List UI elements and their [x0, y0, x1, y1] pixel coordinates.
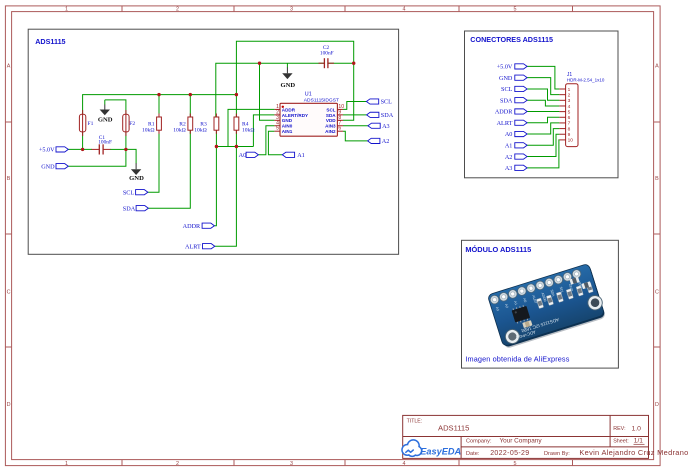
wire ALRT flag to R4 — [215, 130, 237, 246]
svg-text:SCL: SCL — [123, 189, 135, 196]
svg-text:6: 6 — [568, 115, 571, 121]
wire R4 top lead — [235, 95, 237, 118]
svg-text:F1: F1 — [88, 121, 94, 127]
wire R2 top lead — [189, 95, 191, 118]
svg-text:ADS1115: ADS1115 — [35, 37, 65, 46]
wire A1 flag to AIN1 pin 5 — [268, 131, 282, 155]
node SDA connector flag net flag — [500, 97, 527, 104]
svg-text:Imagen obtenida de AliExpress: Imagen obtenida de AliExpress — [465, 355, 569, 364]
svg-text:100nF: 100nF — [98, 140, 112, 146]
node A1 net flag — [282, 152, 304, 159]
wire supply rail to fuses and resistors — [83, 95, 237, 115]
wire F2 to GND bracket — [105, 100, 126, 114]
svg-text:SDA: SDA — [123, 205, 136, 212]
svg-text:Sheet:: Sheet: — [613, 439, 629, 445]
node A3 net flag — [368, 123, 390, 130]
ground — [98, 105, 113, 124]
svg-text:1: 1 — [65, 7, 68, 13]
resistor R3 10kΩ — [194, 114, 219, 134]
svg-text:7: 7 — [568, 121, 571, 127]
svg-text:GND: GND — [499, 75, 513, 82]
svg-text:Drawn By:: Drawn By: — [544, 451, 570, 457]
wire A1 to J1 pin 8 — [527, 129, 559, 146]
wire R1 top lead — [158, 95, 160, 118]
svg-text:A: A — [655, 64, 659, 70]
wire A3 to J1 pin 10 — [527, 140, 559, 168]
svg-text:AIN2: AIN2 — [325, 129, 336, 134]
wire A2 to J1 pin 9 — [527, 134, 559, 156]
wire GND to J1 pin 2 — [527, 78, 559, 95]
svg-text:U1: U1 — [305, 92, 312, 98]
node A3 connector flag net flag — [505, 165, 527, 172]
svg-text:GND: GND — [129, 175, 144, 182]
svg-text:SCL: SCL — [326, 107, 335, 112]
svg-text:AIN3: AIN3 — [325, 124, 336, 129]
node ALRT connector flag net flag — [497, 120, 527, 127]
svg-text:5: 5 — [514, 7, 517, 13]
node +5.0V connector flag net flag — [497, 64, 527, 71]
svg-text:REV:: REV: — [613, 426, 625, 432]
svg-text:GND: GND — [282, 118, 293, 123]
node SDA net flag — [123, 205, 149, 212]
wire SCL pin 10 to flag — [343, 102, 366, 110]
wire SDA pin 9 to flag — [343, 114, 367, 116]
node ADDR net flag — [183, 223, 215, 230]
junction (216.4,146.5) — [215, 145, 218, 148]
svg-text:10: 10 — [568, 138, 574, 144]
svg-text:ADDR: ADDR — [495, 109, 513, 116]
svg-text:VDD: VDD — [326, 118, 336, 123]
svg-text:10kΩ: 10kΩ — [194, 128, 207, 134]
wire F1 bottom lead — [82, 132, 84, 150]
resistor R1 10kΩ — [142, 114, 161, 134]
fuse F1 — [79, 110, 93, 136]
wire VDD top rail — [236, 41, 353, 120]
svg-text:HDR-M-2.54_1x10: HDR-M-2.54_1x10 — [567, 77, 605, 82]
junction (236.4,94.6) — [235, 93, 238, 96]
module photo box MODULO ADS1115 — [462, 240, 619, 368]
svg-text:D: D — [655, 402, 659, 408]
svg-text:5: 5 — [568, 109, 571, 115]
svg-text:Company:: Company: — [466, 439, 492, 445]
svg-text:+5.0V: +5.0V — [39, 147, 55, 154]
main schematic box ADS1115 — [28, 29, 398, 254]
svg-text:10kΩ: 10kΩ — [242, 128, 255, 134]
resistor R4 10kΩ — [234, 114, 255, 134]
node A0 net flag — [239, 152, 259, 159]
svg-text:GND: GND — [280, 82, 295, 89]
svg-text:3: 3 — [290, 7, 293, 13]
svg-text:C: C — [7, 290, 11, 296]
svg-text:1: 1 — [568, 87, 571, 93]
fuse F2 — [123, 110, 136, 136]
svg-text:ADDR: ADDR — [282, 107, 296, 112]
svg-text:3: 3 — [568, 98, 571, 104]
junction (190.3,94.6) — [189, 93, 192, 96]
svg-text:EasyEDA: EasyEDA — [420, 446, 461, 456]
svg-text:10kΩ: 10kΩ — [142, 128, 155, 134]
svg-text:GND: GND — [41, 163, 55, 170]
svg-text:5: 5 — [514, 461, 517, 467]
wire ALRT to J1 pin 6 — [527, 117, 559, 122]
svg-text:R4: R4 — [242, 122, 249, 128]
wire AIN2 pin 6 to A2 flag — [343, 131, 368, 141]
svg-text:F2: F2 — [129, 121, 135, 127]
svg-text:SDA: SDA — [500, 97, 513, 104]
wire GND stub between fuses — [104, 100, 106, 105]
junction (82.6,149.4) — [81, 148, 84, 151]
svg-text:2: 2 — [176, 7, 179, 13]
svg-text:GND: GND — [98, 117, 113, 124]
svg-text:AIN1: AIN1 — [282, 129, 293, 134]
svg-text:5: 5 — [276, 126, 279, 132]
svg-text:MÓDULO ADS1115: MÓDULO ADS1115 — [465, 245, 531, 254]
node A2 connector flag net flag — [505, 154, 527, 161]
svg-text:TITLE:: TITLE: — [407, 419, 423, 425]
wire +5.0V rail with C1 — [68, 148, 92, 150]
wire A0 flag to AIN0 pin 4 — [258, 126, 274, 155]
svg-text:A2: A2 — [505, 154, 513, 161]
title block — [403, 415, 689, 458]
junction (353.7,63.2) — [352, 62, 355, 65]
wire GND rail to pin 3 — [260, 63, 275, 120]
svg-text:A0: A0 — [505, 131, 513, 138]
svg-text:1.0: 1.0 — [632, 425, 642, 432]
node SDA right net flag — [367, 112, 394, 119]
node GND connector flag net flag — [499, 75, 527, 82]
junction (159,94.6) — [157, 93, 160, 96]
wire F2 bottom lead — [125, 132, 127, 150]
svg-text:ALRT: ALRT — [497, 120, 513, 127]
wire SCL to J1 pin 3 — [527, 89, 559, 100]
ground — [129, 163, 144, 182]
junction (259.5,63.2) — [258, 62, 261, 65]
svg-text:B: B — [7, 176, 11, 182]
svg-text:A1: A1 — [297, 152, 305, 159]
svg-text:A: A — [7, 64, 11, 70]
svg-text:A1: A1 — [505, 142, 513, 149]
svg-text:AIN0: AIN0 — [282, 124, 293, 129]
svg-text:ADS1115: ADS1115 — [438, 424, 469, 433]
svg-text:100nF: 100nF — [320, 50, 334, 56]
svg-text:Kevin Alejandro Cruz Medrano: Kevin Alejandro Cruz Medrano — [579, 448, 688, 457]
IC U1 ADS1115IDGST — [274, 92, 344, 137]
node A1 connector flag net flag — [505, 142, 527, 149]
wire to ADDR pin 1 — [228, 109, 274, 146]
junction (125.9,149.4) — [124, 148, 127, 151]
junction (236.4,146.5) — [235, 145, 238, 148]
node +5.0V net flag — [39, 147, 68, 154]
svg-text:SCL: SCL — [501, 86, 513, 93]
wire SDA to J1 pin 4 — [527, 100, 559, 106]
EasyEDA logo — [403, 441, 461, 457]
svg-text:6: 6 — [338, 126, 341, 132]
capacitor C2 100nF — [319, 45, 335, 69]
wire to GND arrow right of C1 — [126, 149, 136, 163]
svg-text:Date:: Date: — [466, 451, 480, 457]
svg-text:2: 2 — [176, 461, 179, 467]
svg-text:8: 8 — [568, 126, 571, 132]
svg-text:9: 9 — [568, 132, 571, 138]
wire GND mid rail — [216, 63, 354, 117]
svg-text:10kΩ: 10kΩ — [173, 128, 186, 134]
svg-text:SDA: SDA — [381, 112, 394, 119]
capacitor C1 100nF — [92, 135, 112, 155]
node SCL right net flag — [366, 99, 392, 106]
svg-text:A2: A2 — [382, 138, 390, 145]
node A0 connector flag net flag — [505, 131, 527, 138]
svg-text:1/1: 1/1 — [634, 438, 643, 445]
ground — [280, 67, 295, 89]
svg-text:2: 2 — [568, 92, 571, 98]
svg-text:4: 4 — [403, 461, 406, 467]
node GND flag net flag — [41, 163, 68, 170]
svg-text:D: D — [7, 402, 11, 408]
node ADDR connector flag net flag — [495, 109, 527, 116]
wire to ALERT/RDY pin 2 — [253, 115, 274, 147]
wire A0 to J1 pin 7 — [527, 123, 559, 134]
svg-text:SCL: SCL — [381, 99, 393, 106]
svg-text:C: C — [655, 290, 659, 296]
svg-text:A0: A0 — [239, 152, 247, 159]
wire ADDR to J1 pin 5 — [527, 110, 559, 112]
wire GND flag to C1 net — [68, 149, 126, 166]
svg-text:SDA: SDA — [326, 113, 336, 118]
svg-text:ADDR: ADDR — [183, 223, 201, 230]
resistor R2 10kΩ — [173, 114, 192, 134]
wire pulldown rail — [216, 146, 253, 148]
svg-text:A3: A3 — [382, 123, 390, 130]
wire GND stub top — [286, 63, 288, 67]
svg-text:2022-05-29: 2022-05-29 — [490, 450, 529, 457]
svg-text:B: B — [655, 176, 659, 182]
svg-text:4: 4 — [403, 7, 406, 13]
node A2 net flag — [368, 138, 390, 145]
svg-text:+5.0V: +5.0V — [497, 64, 513, 71]
wire SCL flag to R1 — [148, 130, 159, 192]
svg-text:ADS1115IDGST: ADS1115IDGST — [304, 98, 339, 104]
svg-text:4: 4 — [568, 104, 571, 110]
svg-text:R1: R1 — [148, 122, 155, 128]
svg-text:3: 3 — [290, 461, 293, 467]
svg-text:1: 1 — [65, 461, 68, 467]
wire ADDR flag to R3 — [214, 130, 216, 226]
svg-text:ALERT/RDY: ALERT/RDY — [282, 113, 308, 118]
svg-text:CONECTORES ADS1115: CONECTORES ADS1115 — [470, 35, 553, 44]
node ALRT net flag — [185, 243, 215, 250]
connector J1 HDR-M-2.54_1x10 — [559, 72, 605, 147]
connector sheet box CONECTORES ADS1115 — [465, 31, 619, 178]
wire +5.0V to J1 pin 1 — [527, 66, 559, 89]
svg-text:Your Company: Your Company — [500, 438, 543, 445]
svg-text:A3: A3 — [505, 165, 513, 172]
svg-text:ALRT: ALRT — [185, 243, 201, 250]
svg-text:R3: R3 — [200, 122, 207, 128]
wire SDA flag to R2 — [148, 130, 190, 208]
svg-text:R2: R2 — [179, 122, 186, 128]
node SCL net flag — [123, 189, 148, 196]
node SCL connector flag net flag — [501, 86, 527, 93]
wire AIN3 pin 7 to A3 flag — [343, 125, 368, 127]
